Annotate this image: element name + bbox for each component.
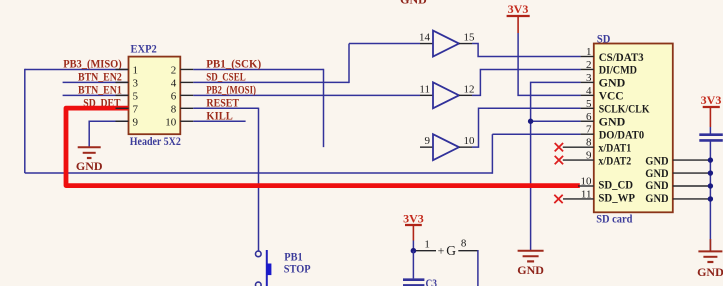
pushbutton PB1 bottom terminal circle [255, 282, 261, 286]
svg-text:3V3: 3V3 [701, 93, 722, 107]
buffer U1 output stub [459, 43, 472, 45]
svg-text:4: 4 [171, 77, 177, 89]
svg-text:4: 4 [586, 85, 592, 97]
svg-text:6: 6 [586, 111, 592, 123]
svg-text:2: 2 [171, 65, 177, 77]
svg-text:Header 5X2: Header 5X2 [130, 134, 181, 148]
EXP2 pin 1 stub [116, 68, 129, 70]
SD pin 9 stub x/DAT2 [563, 159, 594, 161]
no-ERC marker X pin 8 [555, 143, 563, 151]
power port 3V3 middle bar [405, 224, 422, 226]
svg-text:+: + [438, 243, 445, 257]
power port 3V3 right stem [709, 107, 711, 127]
svg-text:3: 3 [133, 77, 139, 89]
svg-text:2: 2 [586, 59, 592, 71]
svg-text:11: 11 [581, 189, 592, 201]
junction dot GND rail pin6 [528, 119, 533, 124]
SD pin 6 stub [581, 120, 594, 122]
pushbutton PB1 actuator [267, 264, 272, 276]
power port 3V3 right bar [703, 106, 720, 108]
wire net BTN_EN1 [63, 94, 129, 96]
junction dot 3V3 C3 G [411, 248, 417, 254]
SD right GND pin stub row9 [673, 172, 711, 174]
capacitor right bottom plate [699, 139, 723, 142]
wire net 3V3 to SD pin4 VCC [518, 33, 581, 95]
svg-text:GND: GND [645, 178, 668, 192]
svg-text:x/DAT2: x/DAT2 [598, 153, 631, 167]
svg-text:SD_WP: SD_WP [598, 191, 635, 205]
SD pin names left side [598, 50, 650, 205]
svg-text:14: 14 [419, 32, 431, 44]
pushbutton PB1 top terminal circle [255, 251, 261, 257]
wire net PB1_(SCK) vertical to buffer U3 input [323, 69, 325, 147]
svg-text:7: 7 [586, 124, 592, 136]
svg-text:DO/DAT0: DO/DAT0 [599, 128, 644, 142]
svg-text:SCLK/CLK: SCLK/CLK [599, 102, 650, 116]
svg-text:KILL: KILL [206, 108, 232, 122]
wire junction to G pin 1 [413, 250, 436, 252]
svg-text:GND: GND [645, 153, 668, 167]
svg-text:GND: GND [645, 191, 668, 205]
capacitor C3 top plate [403, 278, 424, 281]
svg-text:3V3: 3V3 [508, 2, 529, 16]
svg-text:10: 10 [464, 135, 476, 147]
SD pin 5 stub [581, 107, 594, 109]
EXP2 pin 8 stub [180, 107, 193, 109]
capacitor right top plate [699, 133, 723, 136]
svg-text:BTN_EN1: BTN_EN1 [78, 83, 122, 97]
wire 3V3 right to capacitor [709, 127, 711, 134]
EXP2 pin 2 stub [180, 68, 193, 70]
SD pin 4 stub [581, 94, 594, 96]
EXP2 pin 9 stub [116, 120, 129, 122]
svg-text:8: 8 [461, 238, 467, 250]
svg-text:12: 12 [464, 83, 475, 95]
svg-text:8: 8 [171, 103, 177, 115]
EXP2 pin 5 stub [116, 94, 129, 96]
power port 3V3 top bar [507, 15, 530, 17]
wire net PB3_(MISO) riser to DO/DAT0 [491, 134, 493, 174]
EXP2 pin 6 stub [180, 94, 193, 96]
buffer U1 triangle [433, 31, 459, 57]
svg-text:SD_CSEL: SD_CSEL [206, 70, 246, 84]
svg-text:CS/DAT3: CS/DAT3 [599, 50, 644, 64]
svg-text:C3: C3 [426, 276, 438, 286]
wire buffer U2 output to SD pin2 [472, 69, 581, 95]
EXP2 pin 10 stub [180, 120, 193, 122]
capacitor C3 bottom plate [403, 284, 424, 286]
no-ERC marker X pin 11 [554, 195, 562, 203]
buffer U3 input wire [420, 146, 433, 148]
wire SD pin7 DO/DAT0 [492, 133, 580, 135]
svg-text:GND: GND [697, 265, 723, 279]
wire net SD_CSEL horizontal [193, 81, 349, 83]
SD pin 10 stub SD_CD [578, 185, 594, 187]
svg-text:SD card: SD card [596, 212, 633, 226]
svg-text:5: 5 [133, 90, 139, 102]
header EXP2 body [129, 57, 181, 135]
wire net PB2_(MOSI) to buffer U2 input [193, 94, 420, 96]
junction dot rail row10 [708, 183, 713, 188]
wire G pin 8 down [477, 250, 479, 286]
svg-text:15: 15 [464, 32, 476, 44]
SD right side GND pin names [645, 153, 668, 205]
svg-text:BTN_EN2: BTN_EN2 [78, 70, 122, 84]
svg-text:8: 8 [586, 137, 592, 149]
svg-text:9: 9 [586, 150, 592, 162]
SD right GND pin stub row11 [673, 198, 711, 200]
SD pin 7 stub [581, 133, 594, 135]
svg-text:VCC: VCC [599, 89, 624, 103]
svg-text:1: 1 [133, 65, 139, 77]
SD pin 3 stub [581, 81, 594, 83]
wire net RESET vertical to pushbutton PB1 [258, 108, 260, 252]
wire net SD_DET highlighted thick red [66, 108, 580, 186]
svg-text:SD_CD: SD_CD [598, 178, 633, 192]
svg-text:10: 10 [581, 176, 593, 188]
wire net PB3_(MISO) left horizontal [25, 68, 129, 70]
EXP2 pin 7 stub [116, 107, 129, 109]
svg-text:DI/CMD: DI/CMD [599, 63, 637, 77]
EXP2 pin numbers left column [133, 65, 139, 129]
wire net RESET horizontal [193, 107, 258, 109]
svg-text:9: 9 [133, 116, 139, 128]
no-ERC marker X pin 9 [555, 156, 563, 164]
buffer U3 triangle [433, 134, 459, 160]
wire net SD_CSEL vertical to buffer U1 input [348, 44, 350, 84]
G pin 8 stub [458, 250, 478, 252]
wire 3V3 middle to junction [412, 241, 414, 251]
wire EXP2 pin9 to ground [89, 121, 128, 146]
svg-text:7: 7 [133, 103, 139, 115]
svg-text:PB2_(MOSI): PB2_(MOSI) [206, 83, 256, 97]
junction dot rail row11 [708, 196, 713, 201]
wire net BTN_EN2 [63, 81, 129, 83]
wire SD pin6 GND to rail [531, 120, 581, 122]
svg-text:GND: GND [599, 115, 626, 129]
svg-text:GND: GND [599, 76, 626, 90]
power port 3V3 middle stem [412, 225, 414, 241]
EXP2 pin 7 stub over red [116, 107, 129, 109]
wire SD pin3 GND to ground rail [531, 82, 581, 250]
wire net PB3_(MISO) left vertical [24, 69, 26, 173]
buffer U3 output stub [459, 146, 472, 148]
buffer U2 triangle [433, 82, 459, 108]
SD pin 2 stub [581, 68, 594, 70]
svg-text:GND: GND [76, 159, 103, 173]
svg-text:PB1_(SCK): PB1_(SCK) [206, 57, 261, 71]
wire net SD_CSEL top horizontal to buffer U1 [349, 43, 420, 45]
wire net KILL [193, 120, 245, 122]
EXP2 pin 3 stub [116, 81, 129, 83]
buffer U2 output stub [459, 94, 472, 96]
SD pin 1 stub [581, 56, 594, 58]
wire net PB1_(SCK) horizontal [193, 68, 323, 70]
EXP2 pin 4 stub [180, 81, 193, 83]
ground symbol GND left [78, 147, 101, 158]
right GND rail vertical [709, 142, 711, 252]
EXP2 pin numbers right column [165, 65, 177, 129]
svg-text:6: 6 [171, 90, 177, 102]
svg-text:10: 10 [165, 116, 177, 128]
svg-text:PB3_(MISO): PB3_(MISO) [63, 57, 122, 71]
SD left pin numbers [581, 46, 593, 201]
svg-text:G: G [446, 243, 456, 258]
SD right GND pin stub row8 [673, 159, 711, 161]
svg-text:x/DAT1: x/DAT1 [598, 140, 631, 154]
pushbutton PB1 contact bar [266, 250, 268, 286]
svg-text:5: 5 [586, 98, 592, 110]
junction dot rail row8 [708, 157, 713, 162]
buffer U1 input wire [420, 43, 433, 45]
wire junction down to capacitor C3 [412, 251, 414, 279]
ground symbol GND middle [518, 251, 544, 262]
svg-text:GND: GND [517, 263, 544, 277]
svg-text:1: 1 [586, 46, 592, 58]
SD right GND pin stub row10 [673, 185, 711, 187]
svg-text:EXP2: EXP2 [131, 42, 157, 56]
wire buffer U3 output to SD pin5 SCLK [472, 108, 581, 147]
svg-text:3: 3 [586, 72, 592, 84]
svg-text:STOP: STOP [284, 262, 311, 276]
svg-text:1: 1 [424, 239, 430, 251]
svg-text:SD: SD [597, 31, 611, 45]
ground symbol GND right [698, 239, 722, 262]
svg-text:3V3: 3V3 [403, 212, 424, 226]
svg-text:RESET: RESET [206, 95, 239, 109]
svg-text:9: 9 [425, 135, 431, 147]
SD pin 11 stub SD_WP [563, 198, 594, 200]
buffer U2 input wire [420, 94, 433, 96]
wire net PB3_(MISO) long bottom horizontal [25, 172, 493, 174]
power port 3V3 top stem red [517, 16, 519, 33]
junction dot rail row9 [708, 170, 713, 175]
SD pin 8 stub x/DAT1 [563, 146, 594, 148]
svg-text:11: 11 [419, 83, 430, 95]
svg-text:GND: GND [400, 0, 427, 7]
SD card connector body [594, 44, 673, 213]
wire buffer U1 output to SD pin1 [472, 44, 581, 57]
